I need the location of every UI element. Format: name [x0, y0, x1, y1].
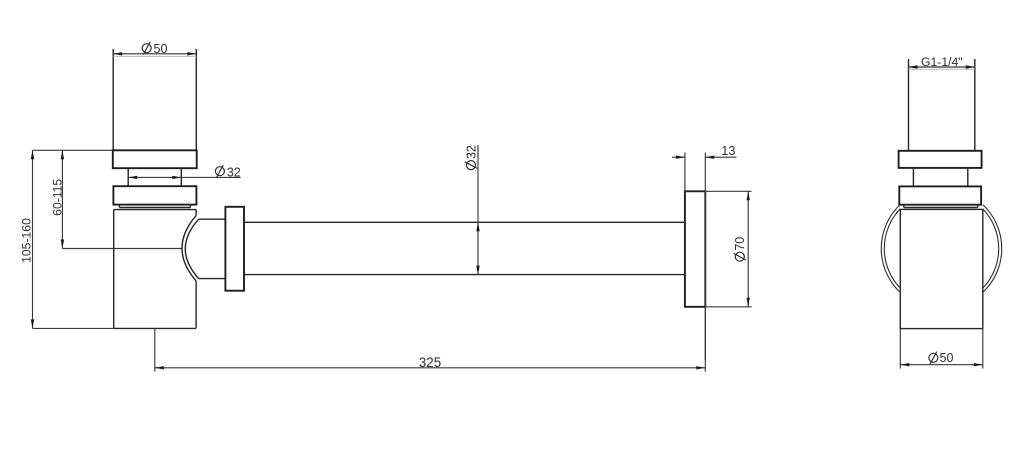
dimension Ø70 [747, 191, 749, 306]
bottle body (left view) [114, 209, 196, 211]
sphere silhouette left arc (outer) [881, 205, 900, 293]
dimension 325 [154, 328, 156, 371]
bottle body (right view) [900, 209, 983, 328]
sphere silhouette left arc (inner) [884, 209, 900, 288]
svg-text:G1-1/4": G1-1/4" [921, 55, 963, 69]
outlet centerline [62, 248, 181, 250]
inlet cylinder (left view) [112, 49, 114, 150]
horizontal pipe [244, 221, 685, 223]
washer seat (right view) [903, 205, 905, 208]
svg-text:50: 50 [154, 42, 168, 56]
dimension Ø50 (right view) [899, 329, 901, 369]
extension line top-left [33, 149, 113, 151]
inlet tube (right view) [908, 59, 910, 151]
dimension 13 [672, 156, 685, 158]
svg-text:60-115: 60-115 [51, 179, 65, 216]
dimension 105-160 [32, 150, 34, 328]
lower flange (right view) [899, 186, 981, 204]
neck (left view) [127, 168, 129, 186]
upper flange (right view) [899, 151, 982, 168]
outlet transition arcs [182, 216, 196, 281]
compression nut [225, 207, 244, 291]
sphere silhouette right arc (inner) [983, 209, 999, 288]
svg-text:50: 50 [940, 351, 954, 365]
extensions Ø70 [705, 190, 751, 192]
upper flange (left view) [113, 150, 197, 168]
neck (right view) [912, 168, 914, 187]
svg-text:32: 32 [464, 145, 478, 159]
svg-text:105-160: 105-160 [19, 218, 33, 263]
svg-text:70: 70 [733, 237, 747, 251]
svg-text:325: 325 [419, 355, 441, 370]
svg-text:13: 13 [721, 143, 735, 158]
dimension Ø32 (pipe) [477, 145, 479, 275]
wall flange [685, 191, 705, 306]
dimension G1-1/4 [909, 66, 975, 68]
outlet socket [199, 218, 226, 220]
washer seat (left view) [118, 205, 120, 208]
dimension Ø50 (left view) [113, 53, 196, 55]
sphere silhouette right arc (outer) [983, 205, 1002, 293]
dimension 60-115 [61, 150, 63, 248]
dimension Ø32 (neck) [128, 176, 240, 178]
svg-text:32: 32 [227, 165, 241, 179]
lower flange (left view) [113, 186, 196, 204]
extensions 13 [684, 153, 686, 192]
